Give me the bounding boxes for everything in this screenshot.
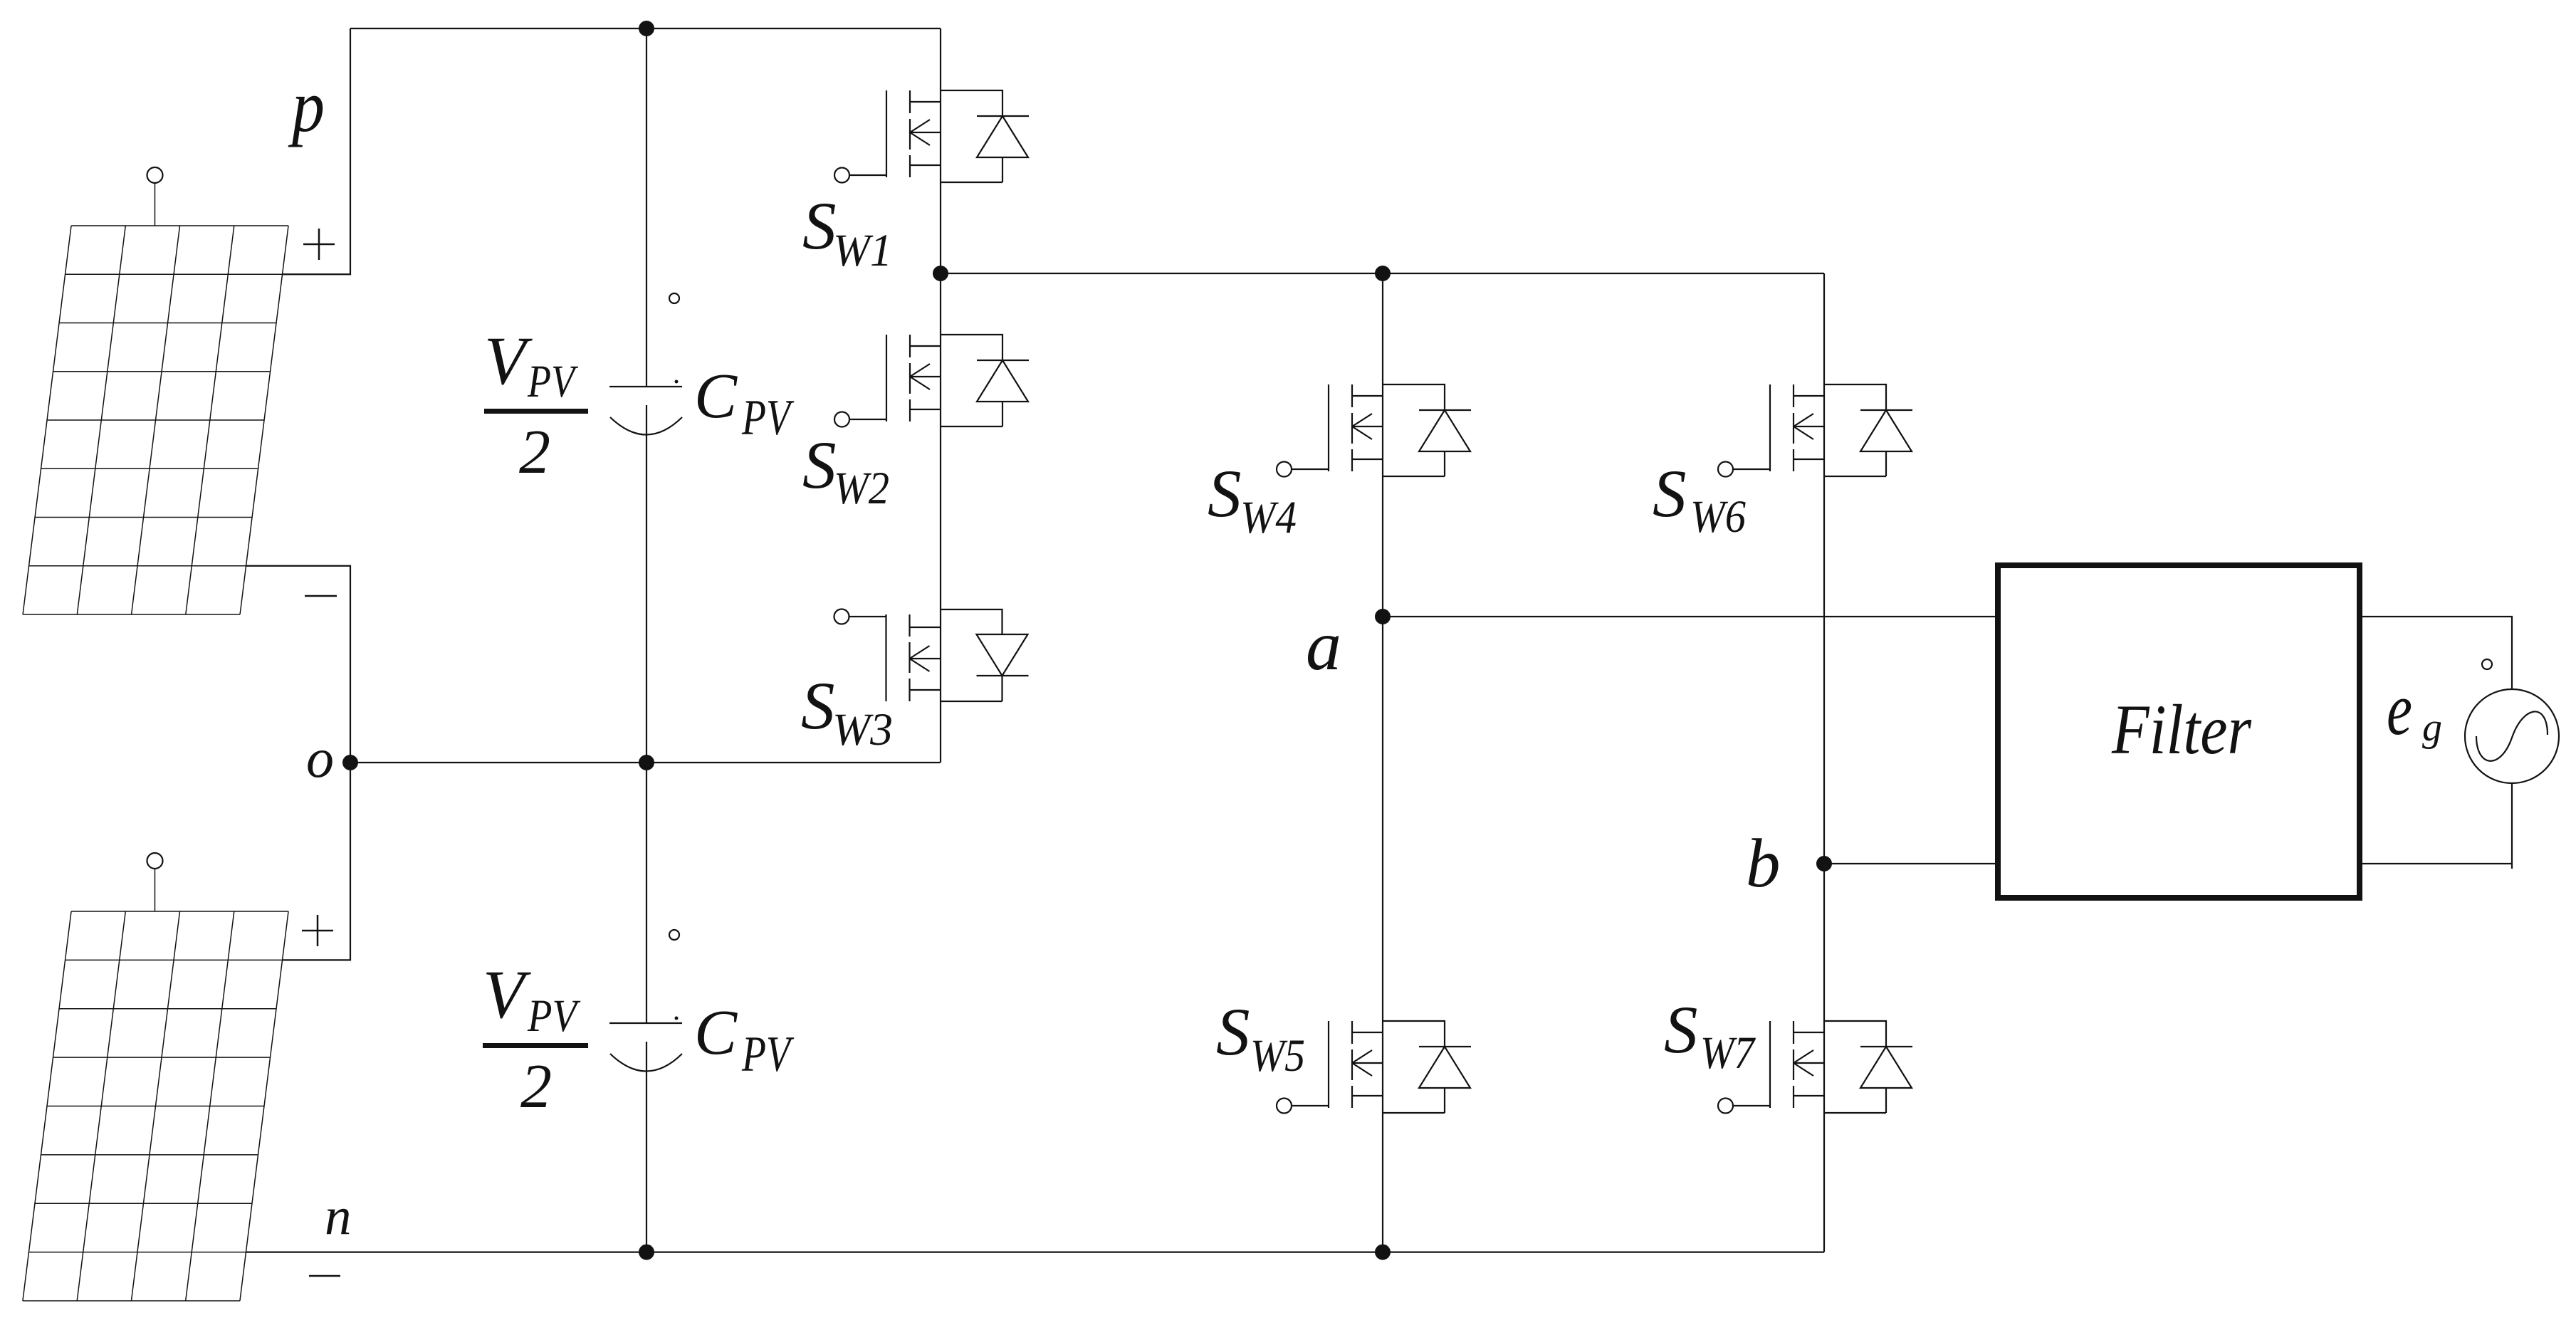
- SW5 label: [1216, 994, 1305, 1082]
- PV2 plus sign: [302, 915, 333, 946]
- PV1 terminal circle: [147, 167, 163, 226]
- PV2 terminal circle: [147, 853, 163, 911]
- junction dot top rail / capacitor bus: [639, 21, 654, 36]
- CPV1 value label VPV/2: [484, 323, 588, 487]
- svg-text:S: S: [802, 188, 837, 263]
- wire mid rail to H-bridge: [941, 273, 1824, 274]
- svg-text:S: S: [801, 668, 835, 743]
- node b junction dot: [1816, 856, 1832, 871]
- svg-text:o: o: [306, 727, 334, 789]
- CPV1 label: [694, 361, 795, 446]
- svg-text:S: S: [1208, 456, 1242, 531]
- junction dot n rail / SW5 leg: [1375, 1245, 1391, 1260]
- capacitor CPV2 (lower): [609, 763, 682, 1252]
- PV1 minus sign: [305, 595, 337, 597]
- wire filter to grid source (bottom): [2360, 783, 2512, 869]
- PV panel PV1 (upper): [23, 226, 288, 614]
- transistor SW6: [1718, 384, 1912, 477]
- capacitor CPV1 (upper): [609, 28, 682, 763]
- wire PV2+ up to node o: [283, 763, 351, 960]
- svg-text:b: b: [1746, 825, 1781, 901]
- wire PV1+ to p rail: [283, 28, 351, 274]
- svg-text:V: V: [483, 956, 531, 1032]
- node a junction dot: [1375, 609, 1391, 624]
- SW4 label: [1208, 456, 1297, 543]
- svg-text:W6: W6: [1690, 491, 1746, 543]
- svg-text:C: C: [694, 361, 738, 431]
- PV1 plus sign: [303, 229, 335, 260]
- svg-text:V: V: [484, 323, 533, 399]
- grid source eg: [2465, 659, 2559, 783]
- svg-text:n: n: [325, 1187, 352, 1246]
- wire bottom rail n: [246, 1251, 1825, 1252]
- svg-text:a: a: [1306, 606, 1341, 685]
- wire top rail p: [350, 28, 941, 29]
- Filter block: [1998, 565, 2360, 898]
- wire SW4-SW5 leg: [1382, 273, 1383, 1252]
- SW2 label: [802, 427, 889, 514]
- wire filter to grid source (top): [2360, 617, 2512, 689]
- svg-text:p: p: [288, 64, 325, 147]
- svg-text:2: 2: [519, 418, 550, 487]
- svg-text:2: 2: [520, 1052, 552, 1121]
- transistor SW1: [834, 90, 1029, 183]
- svg-text:C: C: [694, 998, 738, 1068]
- CPV2 label: [694, 998, 795, 1082]
- transistor SW7: [1718, 1021, 1912, 1114]
- wire SW1 leg (p rail to o line): [940, 28, 941, 763]
- svg-text:W7: W7: [1700, 1027, 1756, 1079]
- transistor SW4: [1277, 384, 1471, 477]
- svg-text:S: S: [1216, 994, 1250, 1069]
- svg-text:W1: W1: [833, 225, 892, 276]
- svg-text:PV: PV: [741, 390, 795, 446]
- svg-text:PV: PV: [741, 1027, 795, 1082]
- svg-text:S: S: [802, 427, 837, 503]
- SW3 label: [801, 668, 893, 755]
- junction dot node o: [342, 755, 358, 770]
- svg-text:W2: W2: [834, 463, 889, 514]
- CPV2 value label VPV/2: [483, 956, 588, 1121]
- junction dot SW1/SW2 midpoint: [933, 266, 948, 281]
- wire node b to filter: [1824, 863, 1998, 864]
- svg-text:S: S: [1653, 456, 1687, 531]
- svg-text:W5: W5: [1250, 1030, 1305, 1082]
- wire SW6-SW7 leg: [1823, 273, 1825, 1252]
- wire PV1- down to node o: [246, 566, 351, 763]
- transistor SW5: [1277, 1021, 1471, 1114]
- svg-text:e: e: [2387, 667, 2412, 750]
- svg-text:W4: W4: [1240, 492, 1297, 543]
- SW6 label: [1653, 456, 1746, 543]
- SW1 label: [802, 188, 892, 276]
- transistor SW2: [834, 335, 1029, 427]
- svg-text:g: g: [2422, 706, 2442, 750]
- svg-text:PV: PV: [527, 356, 578, 407]
- transistor SW3 (mirrored): [834, 609, 1029, 702]
- svg-text:PV: PV: [527, 990, 580, 1042]
- eg label: [2387, 667, 2442, 750]
- junction dot n rail / capacitor: [639, 1245, 654, 1260]
- wire node a to filter: [1383, 616, 1998, 617]
- PV panel PV2 (lower): [23, 911, 288, 1301]
- junction dot o line / capacitor mid: [639, 755, 654, 770]
- wire node o line: [350, 762, 941, 763]
- svg-text:W3: W3: [832, 704, 893, 755]
- SW7 label: [1664, 992, 1756, 1079]
- junction dot mid rail / SW4: [1375, 266, 1391, 281]
- PV2 minus sign: [309, 1275, 340, 1277]
- svg-text:S: S: [1664, 992, 1698, 1067]
- svg-text:Filter: Filter: [2111, 690, 2252, 769]
